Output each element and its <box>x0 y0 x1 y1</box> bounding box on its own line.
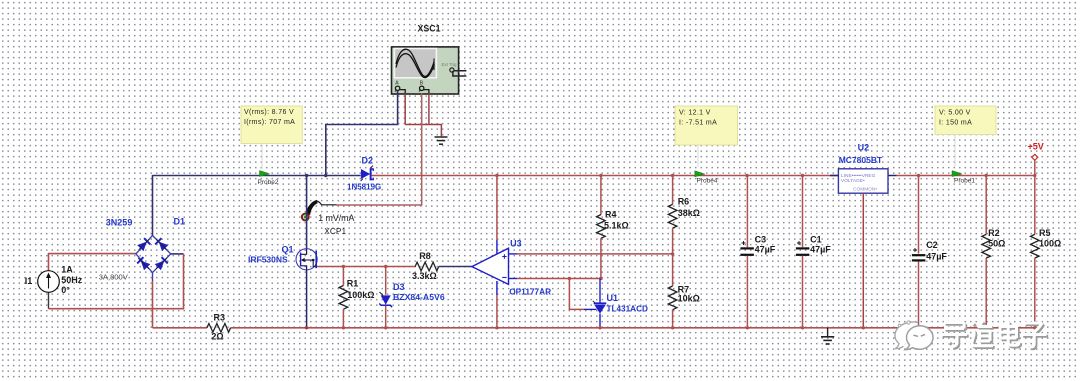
wire U3 -input to R4 bottom <box>517 278 601 280</box>
resistor R1 100k <box>339 267 374 328</box>
svg-text:XSC1: XSC1 <box>418 24 441 34</box>
wire U3 V+ to top rail <box>496 175 498 240</box>
capacitor C3 47uF <box>740 176 775 328</box>
svg-text:Probe2: Probe2 <box>258 179 279 186</box>
node C3 rail junctions <box>745 174 748 177</box>
resistor R8 3.3k <box>412 251 439 281</box>
resistor R7 10k <box>668 254 700 328</box>
svg-text:50Ω: 50Ω <box>988 238 1005 248</box>
svg-text:BZX84-A5V6: BZX84-A5V6 <box>393 292 445 302</box>
svg-text:I1: I1 <box>25 276 33 286</box>
svg-text:LINE••••••VREG: LINE••••••VREG <box>841 173 876 179</box>
shunt reference U1 TL431ACD <box>593 279 648 328</box>
svg-text:47µF: 47µF <box>926 251 947 261</box>
capacitor C1 47uF <box>796 175 831 328</box>
diode top-left edge <box>136 236 153 253</box>
node R6 rail junction <box>671 174 674 177</box>
svg-text:U2: U2 <box>858 142 870 152</box>
transistor Q1 IRF530NS <box>248 244 317 270</box>
yellow measurement box 1 <box>241 106 302 169</box>
wire R8 to op-amp output <box>439 266 472 268</box>
svg-text:D1: D1 <box>174 217 186 227</box>
svg-text:10kΩ: 10kΩ <box>678 293 700 303</box>
svg-text:Q1: Q1 <box>282 244 294 254</box>
yellow measurement box 2 <box>675 106 738 167</box>
svg-text:3A,800V: 3A,800V <box>99 273 129 282</box>
node U2 common rail junction <box>862 326 865 329</box>
wire Q1 gate line to R8 <box>317 266 415 268</box>
probe Probe2 <box>258 171 279 187</box>
power terminal +5V <box>1028 142 1044 176</box>
node gate-D3 junction <box>384 265 387 268</box>
svg-text:3N259: 3N259 <box>106 218 133 228</box>
svg-text:R8: R8 <box>419 251 431 261</box>
current source I1 <box>25 265 83 295</box>
wire top rail blue (to D2 anode) <box>153 175 361 177</box>
wire U2 output rail to +5V <box>897 175 1035 177</box>
node R5 top rail junction <box>1033 174 1036 177</box>
svg-text:V: 12.1 V: V: 12.1 V <box>679 110 711 117</box>
wire TL431 ref line <box>569 279 596 310</box>
svg-text:IRF530NS: IRF530NS <box>248 255 288 265</box>
wire scope B+ down to XCP1 output <box>337 94 422 206</box>
node Q1 drain rail junction <box>305 174 308 177</box>
oscilloscope XSC1 <box>392 24 467 95</box>
svg-text:47µF: 47µF <box>810 245 831 255</box>
svg-text:47µF: 47µF <box>755 245 776 255</box>
diode bottom-right edge <box>153 255 170 272</box>
svg-text:D3: D3 <box>393 282 405 292</box>
wire U3 V- to bottom rail <box>496 295 498 328</box>
node gate-R1 junction <box>342 265 345 268</box>
wire Q1 source to bottom rail <box>306 270 308 328</box>
node R1 rail junction <box>342 326 345 329</box>
node R2 bottom rail junction <box>985 326 988 329</box>
probe Probe1 <box>952 171 975 185</box>
diode bottom-left edge <box>135 255 152 272</box>
wire Q1 drain from top rail <box>306 175 308 249</box>
voltage regulator U2 MC7805BT <box>838 142 888 193</box>
svg-text:C2: C2 <box>926 240 938 250</box>
current probe XCP1 <box>302 201 355 237</box>
svg-text:2Ω: 2Ω <box>211 331 223 341</box>
wire U3 +input to R6/R7 node <box>517 253 673 255</box>
node R4 rail junction <box>599 174 602 177</box>
node U3 V+ rail junction <box>495 174 498 177</box>
svg-text:Ext Trig: Ext Trig <box>442 62 457 67</box>
diode D2 1N5819G <box>347 156 381 192</box>
svg-text:50Hz: 50Hz <box>61 275 83 285</box>
wire bridge + output up to top rail <box>152 175 154 236</box>
svg-text:100kΩ: 100kΩ <box>347 290 374 300</box>
svg-text:MC7805BT: MC7805BT <box>839 155 883 165</box>
svg-text:R6: R6 <box>678 196 690 206</box>
svg-text:R3: R3 <box>214 312 226 322</box>
svg-text:0°: 0° <box>61 285 70 295</box>
wire I1 top to bridge left (AC1) <box>49 254 137 271</box>
node R6/R7/+input junction <box>671 252 674 255</box>
svg-text:V(rms): 8.76 V: V(rms): 8.76 V <box>244 109 294 116</box>
node R5 bottom rail junction <box>1033 326 1036 329</box>
svg-text:C1: C1 <box>810 234 822 244</box>
svg-text:1 mV/mA: 1 mV/mA <box>318 213 354 223</box>
node scope-A rail junction <box>324 174 327 177</box>
node Q1 source rail junction <box>305 326 308 329</box>
svg-text:100Ω: 100Ω <box>1039 238 1061 248</box>
op-amp U3 OP1177AR <box>472 238 551 296</box>
capacitor C2 47uF <box>912 175 947 328</box>
zener D3 BZX84-A5V6 <box>379 267 445 328</box>
wire U2 pin stubs <box>830 175 897 177</box>
svg-text:+5V: +5V <box>1028 142 1044 152</box>
svg-text:I: -7.51 mA: I: -7.51 mA <box>679 120 717 127</box>
resistor R2 50ohm <box>982 175 1005 328</box>
svg-text:38kΩ: 38kΩ <box>678 208 700 218</box>
node -input/R4 junction <box>599 277 602 280</box>
resistor R6 38k <box>668 175 700 254</box>
resistor R3 2ohm <box>207 312 231 341</box>
watermark text 寻道电子 (approximated strokes) <box>941 321 1048 349</box>
svg-text:R2: R2 <box>988 228 1000 238</box>
probe Probe4 <box>695 171 718 185</box>
svg-text:U1: U1 <box>607 293 619 303</box>
wire bridge - output down to bottom rail <box>152 273 154 328</box>
ground (main rail) <box>821 328 834 344</box>
node U1 rail junction <box>598 326 601 329</box>
resistor R4 5.1k <box>597 175 629 279</box>
svg-text:R4: R4 <box>605 209 617 219</box>
wire scope A+ to top rail <box>326 91 398 176</box>
wire bridge right (AC2) to I1 bottom return <box>49 254 184 309</box>
svg-text:V: 5.00 V: V: 5.00 V <box>939 110 971 117</box>
node C1 rail junctions <box>801 174 804 177</box>
svg-text:XCP1: XCP1 <box>324 226 346 236</box>
svg-text:R1: R1 <box>347 278 359 288</box>
svg-text:C3: C3 <box>755 234 767 244</box>
svg-text:D2: D2 <box>362 156 374 166</box>
svg-text:1A: 1A <box>61 265 73 275</box>
svg-text:5.1kΩ: 5.1kΩ <box>604 220 629 230</box>
svg-text:COMMON•: COMMON• <box>853 187 877 193</box>
node R7 rail junction <box>671 326 674 329</box>
node D3 rail junction <box>384 326 387 329</box>
node C2 rail junction <box>917 174 920 177</box>
svg-text:R5: R5 <box>1039 228 1051 238</box>
wire top rail red (D2 cathode to U2 input) <box>372 175 839 177</box>
svg-text:3.3kΩ: 3.3kΩ <box>412 271 437 281</box>
svg-text:VOLTAGE•: VOLTAGE• <box>841 178 865 184</box>
svg-text:U3: U3 <box>510 238 522 248</box>
node U3 V- rail junction <box>495 326 498 329</box>
wire U2 common to bottom rail <box>862 193 864 328</box>
bottom rail <box>153 327 1040 329</box>
diode top-right edge <box>153 236 170 253</box>
yellow measurement box 3 <box>935 106 996 167</box>
svg-text:1N5819G: 1N5819G <box>347 183 381 192</box>
svg-text:OP1177AR: OP1177AR <box>509 286 551 296</box>
svg-text:TL431ACD: TL431ACD <box>607 304 648 313</box>
svg-text:Probe1: Probe1 <box>954 177 975 184</box>
watermark logo (chat bubbles) <box>895 321 933 350</box>
svg-text:Probe4: Probe4 <box>697 178 718 185</box>
bridge rectifier D1 3N259 <box>99 217 185 282</box>
wire scope A-/B- to ground <box>405 94 441 137</box>
svg-text:I: 150 mA: I: 150 mA <box>939 120 972 127</box>
resistor R5 100ohm <box>1031 175 1062 328</box>
ground (scope) <box>435 137 448 144</box>
svg-text:I(rms): 707 mA: I(rms): 707 mA <box>244 119 295 126</box>
node -input/ref junction <box>568 277 571 280</box>
node R2 rail junction <box>985 174 988 177</box>
